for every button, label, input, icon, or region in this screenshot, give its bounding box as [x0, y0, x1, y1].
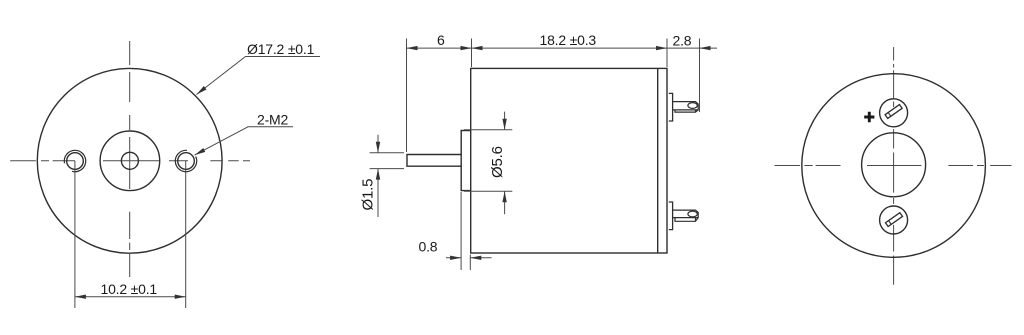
side view: bearing boss: [461, 131, 471, 191]
side view: top terminal hole: [688, 103, 697, 109]
svg-text:Ø5.6: Ø5.6: [489, 146, 506, 178]
side view: bottom terminal tab: [673, 210, 698, 221]
rear view: bottom terminal circle: [880, 206, 908, 234]
dimension 0.8 arrows: [446, 257, 492, 259]
dimension line 2.8: [667, 47, 717, 49]
rear view: motor outer circle: [802, 74, 986, 258]
svg-text:Ø1.5: Ø1.5: [360, 179, 377, 211]
svg-text:10.2 ±0.1: 10.2 ±0.1: [101, 281, 158, 297]
svg-text:6: 6: [437, 32, 445, 48]
extension lines shaft dia: [370, 152, 404, 154]
front view: bearing boss circle: [100, 131, 160, 191]
front view: vertical centerline: [129, 41, 131, 277]
side view: top terminal plate: [669, 93, 673, 121]
side view: shaft: [407, 155, 461, 167]
side view: motor body outline: [471, 68, 667, 253]
rear view: top terminal tab (slanted): [885, 105, 902, 119]
extension line terminal end: [699, 39, 701, 113]
dimension line Ø5.6: [504, 112, 506, 215]
svg-text:2.8: 2.8: [673, 32, 692, 48]
front view: shaft circle: [121, 152, 138, 169]
extension line shaft end: [406, 39, 408, 153]
svg-text:Ø17.2 ±0.1: Ø17.2 ±0.1: [247, 41, 315, 57]
extension line body rear face (top): [666, 39, 668, 68]
dimension line 6: [407, 47, 472, 49]
dimension line 18.2: [472, 47, 668, 49]
dimension line Ø1.5: [377, 135, 379, 217]
side view: top terminal tab: [673, 102, 698, 113]
side view: bottom terminal hole: [688, 211, 697, 217]
front view: right M2 tapped hole (minor dia): [178, 153, 195, 170]
front view: horizontal centerline: [10, 160, 250, 162]
front view: left M2 tapped hole (minor dia): [67, 153, 84, 170]
dimension line 10.2: [75, 296, 186, 298]
leader line for 2-M2: [195, 127, 293, 155]
svg-text:0.8: 0.8: [419, 238, 438, 254]
leader line for Ø17.2: [197, 57, 321, 95]
extension line right hole: [185, 161, 187, 308]
extension lines 0.8: [460, 192, 462, 270]
side view: end cap seam line: [657, 68, 659, 253]
svg-text:2-M2: 2-M2: [257, 111, 289, 127]
side view: bottom terminal plate: [669, 202, 673, 230]
rear view: bottom terminal tab (slanted): [885, 213, 902, 227]
front view: motor outer circle (Ø17.2): [37, 68, 222, 253]
svg-text:18.2 ±0.3: 18.2 ±0.3: [540, 32, 597, 48]
front view: right M2 thread arc (major dia): [175, 150, 196, 171]
rear view: vertical centerline: [893, 47, 895, 285]
rear view: horizontal centerline: [775, 165, 1012, 167]
rear view: top terminal circle: [880, 99, 908, 127]
front view: left M2 thread arc (major dia): [64, 150, 85, 171]
extension line left hole: [74, 161, 76, 308]
extension lines boss dia: [464, 129, 512, 131]
rear view: center boss circle: [862, 133, 926, 197]
rear view: polarity + mark: [864, 112, 874, 122]
extension line body front face (top): [471, 39, 473, 68]
